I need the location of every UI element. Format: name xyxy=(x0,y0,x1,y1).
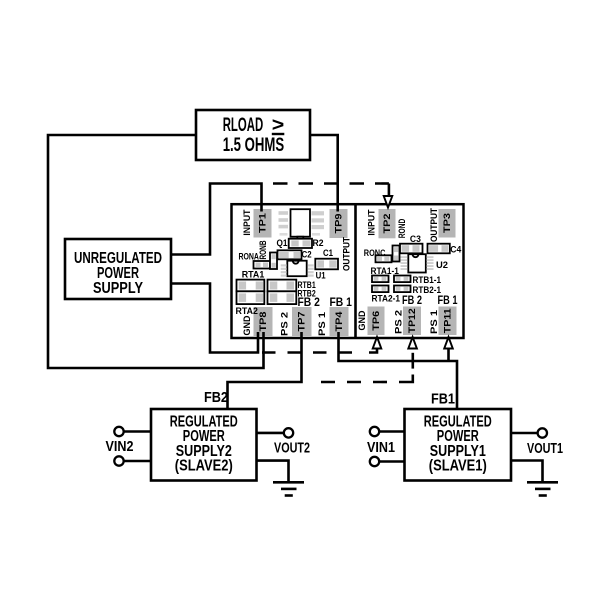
resistor RTA2 xyxy=(237,291,265,304)
svg-text:TP8: TP8 xyxy=(258,311,269,332)
svg-text:TP11: TP11 xyxy=(442,308,453,334)
svg-text:OUTPUT: OUTPUT xyxy=(342,237,353,271)
unregulated power supply box xyxy=(65,239,171,299)
load resistor RLOAD box xyxy=(196,110,310,160)
test point TP1 xyxy=(254,209,272,238)
dashed net input sense to TP2 xyxy=(273,182,389,185)
transistor Q1 body xyxy=(291,209,311,240)
arrow into TP6 xyxy=(373,337,382,349)
test point TP2 xyxy=(379,209,396,238)
svg-text:VIN2: VIN2 xyxy=(106,439,134,455)
svg-text:1.5 OHMS: 1.5 OHMS xyxy=(223,135,284,156)
resistor RONB xyxy=(270,253,277,270)
resistor RTA1 xyxy=(237,280,265,292)
wire RLOAD right to TP9 xyxy=(310,135,338,212)
svg-text:TP1: TP1 xyxy=(257,212,268,233)
wire VIN2 top xyxy=(124,430,151,433)
svg-text:VOUT1: VOUT1 xyxy=(527,441,563,457)
resistor RTA1-1 xyxy=(372,276,389,283)
capacitor C3 xyxy=(400,244,423,254)
op-amp U2 body xyxy=(408,254,426,272)
svg-text:RTA2-1: RTA2-1 xyxy=(372,293,401,304)
svg-text:GND: GND xyxy=(357,310,368,330)
svg-text:FB 1: FB 1 xyxy=(330,295,353,309)
op-amp U1 body xyxy=(287,261,306,277)
arrow into TP12 xyxy=(408,337,417,349)
svg-text:U1: U1 xyxy=(316,271,327,282)
resistor RTA2-1 xyxy=(372,286,389,293)
dashed net FB2 sense to TP12 horizontal xyxy=(309,381,387,384)
test point TP6 xyxy=(368,307,385,336)
wire unregulated supply plus to TP1 xyxy=(171,184,262,255)
terminal VOUT2 xyxy=(284,428,293,437)
svg-text:INPUT: INPUT xyxy=(367,209,378,235)
wire supply2 ground branch xyxy=(257,461,289,482)
dashed net ground sense to TP6 xyxy=(262,351,362,354)
svg-text:SUPPLY: SUPPLY xyxy=(93,280,143,297)
ground symbol supply2 xyxy=(273,482,304,495)
svg-text:TP6: TP6 xyxy=(371,311,382,331)
wire supply1 ground branch xyxy=(511,461,543,483)
transistor Q1 left pads xyxy=(279,211,289,235)
test point TP4 xyxy=(330,307,349,336)
op-amp U1 left pins xyxy=(281,264,287,276)
svg-text:FB2: FB2 xyxy=(204,390,228,406)
svg-text:C4: C4 xyxy=(450,245,462,256)
terminal VIN1 top xyxy=(370,427,379,436)
wire TP11 stub to FB1 xyxy=(447,349,450,361)
capacitor C2 xyxy=(278,250,302,259)
arrow into TP11 xyxy=(444,337,453,349)
wire RLOAD left to ground rail to TP8 xyxy=(48,135,264,368)
resistor RTB1-1 xyxy=(394,276,411,283)
dashed net input sense corner xyxy=(388,184,391,197)
test point TP7 xyxy=(292,307,312,336)
svg-text:U2: U2 xyxy=(436,260,448,271)
svg-text:TP3: TP3 xyxy=(442,213,453,233)
svg-text:TP9: TP9 xyxy=(333,214,344,234)
test point TP12 xyxy=(403,307,421,336)
wire unregulated supply minus to TP8 xyxy=(171,284,258,353)
resistor RTB2 xyxy=(268,291,297,304)
test point TP9 xyxy=(330,209,348,238)
dashed net FB2 sense vertical dash xyxy=(411,353,414,369)
resistor RTB1 xyxy=(268,280,297,292)
resistor RONA xyxy=(254,261,271,269)
svg-text:VOUT2: VOUT2 xyxy=(274,440,310,456)
svg-text:(SLAVE1): (SLAVE1) xyxy=(429,458,487,475)
wire VIN1 top xyxy=(379,430,404,433)
capacitor C4 xyxy=(428,244,450,254)
resistor R2 xyxy=(289,239,312,248)
svg-text:FB 1: FB 1 xyxy=(438,293,458,307)
svg-text:GND: GND xyxy=(242,315,253,335)
wire VIN1 bottom xyxy=(379,460,404,463)
svg-text:C1: C1 xyxy=(323,248,334,259)
svg-text:ROND: ROND xyxy=(397,219,408,239)
transistor Q1 right pads xyxy=(312,211,325,235)
demo board outline (both modules) xyxy=(232,204,464,338)
wire VOUT2 xyxy=(257,432,284,435)
svg-text:FB 2: FB 2 xyxy=(298,295,321,309)
arrow into TP2 xyxy=(384,196,393,208)
op-amp U1 right pins xyxy=(308,264,314,276)
terminal VIN2 top xyxy=(114,427,123,436)
op-amp U2 left pins xyxy=(401,256,408,270)
wire FB1 from TP4 to supply1 xyxy=(339,332,458,409)
svg-text:RLOAD: RLOAD xyxy=(223,115,264,136)
wire VIN2 bottom xyxy=(124,460,151,463)
wire VOUT1 xyxy=(511,432,538,435)
ground symbol supply1 xyxy=(527,482,558,495)
dashed net FB2 sense corner at TP12 xyxy=(399,375,413,383)
test point TP3 xyxy=(439,209,456,238)
svg-text:PS 2: PS 2 xyxy=(279,312,290,336)
test point TP11 xyxy=(439,307,457,336)
wire FB2 from TP7 to supply2 xyxy=(228,332,302,409)
resistor ROND xyxy=(393,246,400,262)
svg-text:R2: R2 xyxy=(313,238,324,249)
terminal VIN2 bottom xyxy=(114,456,123,465)
svg-text:FB1: FB1 xyxy=(431,392,455,408)
svg-text:PS 1: PS 1 xyxy=(317,311,328,336)
svg-text:TP4: TP4 xyxy=(334,311,345,332)
svg-text:VIN1: VIN1 xyxy=(367,440,395,456)
ground sense corner xyxy=(369,349,377,353)
svg-text:TP2: TP2 xyxy=(382,214,393,234)
regulated power supply2 (slave2) box xyxy=(151,409,257,481)
terminal VIN1 bottom xyxy=(370,457,379,466)
op-amp U2 right pins xyxy=(427,256,434,270)
capacitor C1 xyxy=(315,259,338,270)
svg-text:INPUT: INPUT xyxy=(242,209,253,235)
svg-text:TP12: TP12 xyxy=(407,308,418,333)
terminal VOUT1 xyxy=(538,428,547,437)
svg-text:C2: C2 xyxy=(302,250,312,261)
svg-text:RTA2: RTA2 xyxy=(236,306,258,317)
board divider between module 1 and module 2 xyxy=(354,204,357,338)
svg-text:Q1: Q1 xyxy=(277,238,289,249)
regulated power supply1 (slave1) box xyxy=(405,409,512,481)
svg-text:RONB: RONB xyxy=(258,240,269,259)
test point TP8 xyxy=(254,307,273,336)
svg-text:FB 2: FB 2 xyxy=(402,293,422,307)
svg-text:(SLAVE2): (SLAVE2) xyxy=(175,458,233,475)
resistor RONC xyxy=(376,255,392,262)
resistor RTB2-1 xyxy=(394,286,411,293)
svg-text:TP7: TP7 xyxy=(297,312,308,332)
